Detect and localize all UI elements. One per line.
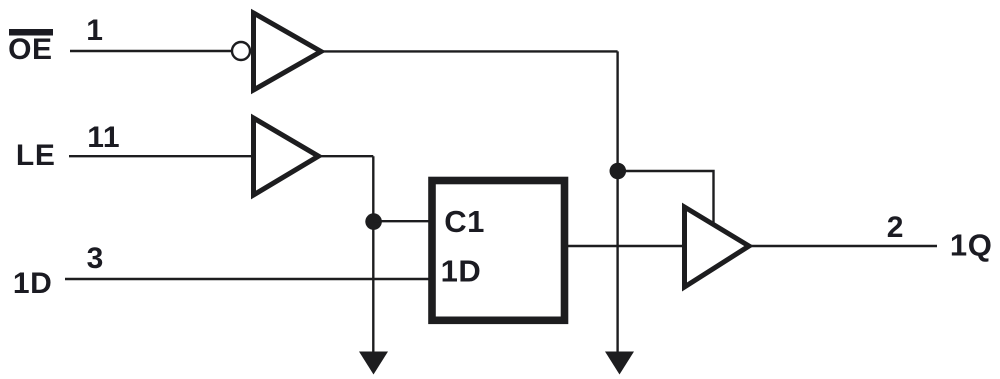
wire OE input [70, 50, 233, 52]
wire U2 output to corner [318, 155, 373, 157]
svg-text:1Q: 1Q [950, 228, 993, 263]
wire vertical LE rail [372, 156, 374, 352]
wire vertical OE-enable rail [616, 51, 618, 352]
svg-text:OE: OE [8, 33, 53, 66]
junction dot on LE rail [365, 213, 382, 230]
svg-text:11: 11 [87, 121, 120, 154]
wire latch output [568, 245, 685, 247]
wire junction to output buffer enable [618, 171, 714, 224]
wire U4 output [749, 245, 937, 247]
wire LE input [69, 155, 253, 157]
wire 1D input [65, 278, 430, 280]
svg-text:3: 3 [87, 242, 104, 275]
arrow down (LE rail continues to other channels) [359, 352, 388, 375]
svg-text:C1: C1 [444, 204, 485, 239]
buffer U1 (OE inverting buffer) [254, 13, 322, 90]
inverter bubble [232, 42, 250, 60]
svg-text:1D: 1D [13, 267, 53, 300]
svg-text:1D: 1D [441, 254, 482, 289]
junction dot on enable rail [610, 163, 627, 180]
latch U3 box [432, 181, 565, 321]
svg-text:1: 1 [86, 14, 103, 47]
buffer U4 (three-state output buffer) [685, 207, 750, 287]
svg-text:LE: LE [16, 139, 56, 172]
buffer U2 (LE buffer) [254, 118, 319, 195]
wire junction to C1 input [374, 220, 430, 222]
svg-text:2: 2 [887, 211, 904, 244]
net label OE (with overbar) [8, 29, 53, 66]
arrow down (enable rail continues to other channels) [605, 352, 634, 375]
wire U1 output to corner [321, 50, 618, 52]
